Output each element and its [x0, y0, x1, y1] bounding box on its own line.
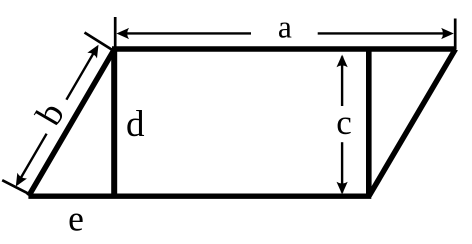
top side: [112, 46, 456, 52]
right side: [369, 49, 456, 196]
dimension c: bottom arrowhead: [337, 182, 348, 195]
dimension a: right tick: [454, 19, 457, 50]
bottom side e: [28, 194, 371, 199]
dimension c: top segment: [341, 57, 343, 107]
dimension a: left segment: [122, 32, 251, 34]
svg-text:b: b: [28, 96, 73, 133]
svg-text:d: d: [126, 104, 145, 145]
dimension b: bottom segment: [20, 134, 47, 180]
dimension b: bottom arrowhead: [11, 173, 27, 190]
dimension a: left arrowhead: [116, 28, 129, 39]
dimension a: left tick: [114, 17, 117, 49]
svg-text:c: c: [336, 103, 352, 142]
dimension b: top arrowhead: [87, 42, 103, 59]
dimension b: top tick: [85, 33, 115, 52]
svg-text:a: a: [278, 10, 292, 45]
svg-text:e: e: [68, 198, 84, 238]
left side: [29, 49, 115, 196]
right inner vertical: [366, 49, 372, 196]
dimension b: top segment: [66, 50, 95, 100]
dimension c: top arrowhead: [337, 55, 348, 68]
dimension b: bottom tick: [2, 180, 29, 194]
dimension a: right segment: [318, 32, 448, 34]
dimension c: bottom segment: [341, 142, 343, 192]
dimension a: right arrowhead: [441, 28, 454, 39]
height line d: [111, 49, 117, 196]
